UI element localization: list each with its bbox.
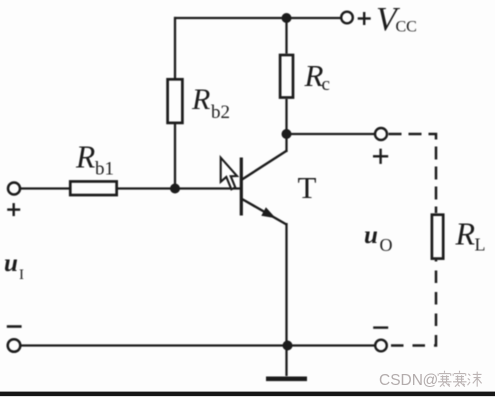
- wire: output top wire from collector node to terminal: [287, 133, 376, 135]
- resistor Rc: [280, 55, 293, 98]
- strip below bar: [0, 395, 495, 397]
- svg-text:b1: b1: [95, 159, 114, 180]
- svg-text:u: u: [364, 222, 378, 249]
- polarity - at output bottom: [373, 326, 388, 328]
- polarity + at output top: [373, 149, 388, 164]
- wire: Vcc rail (top horizontal): [174, 17, 342, 19]
- svg-text:@: @: [423, 372, 439, 389]
- separator bar at bottom: [0, 392, 495, 397]
- wire: Rb2 riser from Vcc rail: [174, 17, 176, 78]
- transistor Q1 emitter arrowhead: [261, 207, 276, 218]
- transistor Q1 emitter diagonal: [242, 199, 287, 225]
- svg-text:I: I: [19, 267, 24, 283]
- node: Vcc rail / Rc junction: [282, 13, 292, 23]
- svg-text:c: c: [322, 74, 330, 95]
- ground symbol bar: [266, 377, 307, 382]
- terminal: output -: [375, 340, 387, 352]
- svg-text:u: u: [4, 250, 18, 277]
- wire: input lead from terminal to Rb1: [20, 187, 70, 189]
- node: base junction: [170, 184, 180, 194]
- wire: Rc bottom lead to collector node: [285, 99, 287, 134]
- mouse cursor: [221, 158, 237, 190]
- terminal: input +: [8, 183, 20, 195]
- resistor Rb2: [168, 79, 183, 123]
- terminal: input -: [8, 339, 21, 352]
- svg-text:R: R: [191, 83, 210, 116]
- resistor RL: [432, 215, 443, 259]
- wire: Rc top lead from Vcc rail: [285, 18, 287, 54]
- svg-text:b2: b2: [211, 102, 230, 123]
- polarity - at input bottom: [7, 325, 22, 328]
- node: emitter / bottom rail junction: [283, 341, 293, 351]
- resistor Rb1: [70, 181, 116, 195]
- svg-text:L: L: [475, 235, 486, 255]
- watermark CSDN: [379, 372, 438, 389]
- wire: ground stem: [285, 346, 287, 377]
- svg-text:CC: CC: [396, 19, 417, 36]
- polarity + at Vcc: [358, 12, 371, 25]
- wire: base wire from Rb1 to transistor base: [118, 187, 240, 189]
- wire: dashed link RL bottom to output-: [391, 260, 436, 346]
- svg-text:O: O: [380, 235, 393, 255]
- node: collector / output junction: [282, 129, 292, 139]
- svg-text:T: T: [298, 170, 317, 205]
- terminal: output +: [375, 128, 387, 140]
- transistor Q1 collector diagonal: [242, 151, 287, 180]
- svg-text:R: R: [75, 140, 95, 175]
- svg-text:R: R: [304, 58, 324, 93]
- polarity + at input: [7, 203, 20, 216]
- svg-text:R: R: [455, 216, 476, 252]
- wire: emitter drop to bottom rail: [285, 223, 287, 346]
- svg-text:CSDN: CSDN: [379, 372, 423, 389]
- wire: bottom rail: [21, 344, 375, 346]
- wire: Rb2 bottom lead to base node: [174, 124, 176, 189]
- watermark CJK glyphs: [438, 371, 482, 387]
- terminal: +Vcc: [341, 12, 353, 24]
- transistor Q1 base bar: [240, 158, 243, 216]
- wire: collector riser: [285, 134, 287, 152]
- wire: dashed link output+ to RL top: [389, 134, 437, 213]
